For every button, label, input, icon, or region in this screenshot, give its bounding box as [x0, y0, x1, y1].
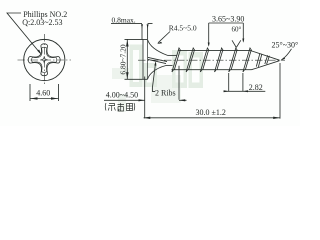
leader phillips [7, 13, 40, 53]
thread blade 1 [172, 48, 181, 72]
thread blade 2 [186, 48, 195, 72]
dim 6.80~7.20 arrowheads [126, 40, 129, 79]
svg-text:3.65~3.90: 3.65~3.90 [212, 14, 244, 23]
point cone upper [251, 51, 280, 61]
thread crest envelope bottom [172, 69, 252, 71]
head rim inner line [147, 40, 149, 80]
dim 4.00~4.50 leader lines [104, 99, 187, 101]
phillips recess inner [32, 47, 57, 72]
ribs [148, 57, 167, 63]
svg-text:4.00~4.50: 4.00~4.50 [106, 90, 138, 99]
svg-text:4.60: 4.60 [36, 88, 50, 97]
dim 6.80~7.20 ext lines [125, 39, 144, 79]
dimension 4.60 arrowheads [31, 97, 58, 100]
2 Ribs leader arrowhead [154, 61, 156, 65]
dim 2.82 line and shelf [224, 90, 266, 92]
svg-text:2 Ribs: 2 Ribs [155, 89, 176, 98]
head flat face [142, 40, 144, 80]
point mini threads [256, 53, 269, 67]
25~30 leader [282, 49, 292, 60]
dim 6.80~7.20 line [126, 39, 128, 79]
phillips recess outer [28, 44, 60, 76]
svg-text:2.82: 2.82 [249, 83, 263, 92]
0.8max arrowheads [141, 24, 149, 28]
shank bottom line [166, 64, 173, 66]
head circle [24, 39, 65, 80]
dim 4.00~4.50 arrowheads [139, 99, 186, 101]
thread blade 3 [200, 48, 209, 72]
dimension 4.60 ext lines [30, 84, 59, 101]
centerline vertical [43, 34, 45, 86]
thread blade 6 [243, 48, 252, 72]
thread blade 4 [215, 48, 224, 72]
shank top line [168, 54, 177, 56]
thread blade 5 [229, 48, 238, 72]
svg-text:30.0 ±1.2: 30.0 ±1.2 [196, 108, 226, 117]
25~30 leader arrowhead [280, 57, 285, 60]
dimension 4.60 line [30, 98, 59, 100]
svg-text:R4.5~5.0: R4.5~5.0 [169, 23, 197, 32]
axis centerline [138, 59, 285, 61]
0.8max leader [111, 24, 153, 40]
thread crest envelope top [178, 50, 251, 52]
svg-text:6.80~7.20: 6.80~7.20 [118, 44, 127, 75]
dim 2.82 arrowheads [224, 90, 248, 92]
R leader [158, 32, 170, 43]
right ext line [279, 63, 281, 119]
head bottom edge [143, 78, 148, 80]
leader arrowhead [37, 50, 41, 55]
dim 30.0 arrowheads [144, 117, 280, 119]
bugle bottom curve [148, 66, 167, 80]
centerline horizontal [18, 59, 72, 61]
label (CJK strip use) [105, 103, 135, 111]
60deg angle lines [232, 40, 241, 47]
dim 3.65~3.90 lines [209, 23, 244, 46]
dim 3.65~3.90 arrowheads [208, 39, 245, 47]
bugle top curve [148, 40, 168, 56]
head top edge [143, 39, 148, 41]
point cone lower [252, 61, 280, 70]
dim 2.82 ext lines [229, 73, 243, 91]
2 Ribs leader [152, 63, 155, 92]
R leader arrowhead [157, 42, 162, 44]
svg-text:25°~30°: 25°~30° [272, 40, 299, 49]
svg-text:0.8max.: 0.8max. [112, 16, 136, 25]
svg-text:Q:2.03~2.53: Q:2.03~2.53 [22, 18, 62, 27]
svg-text:60°: 60° [232, 25, 242, 33]
watermark logo blocks [112, 45, 203, 113]
dim 30.0 line [144, 117, 280, 119]
ext verticals [145, 66, 179, 119]
center astroid [41, 56, 48, 63]
threads [172, 48, 252, 72]
